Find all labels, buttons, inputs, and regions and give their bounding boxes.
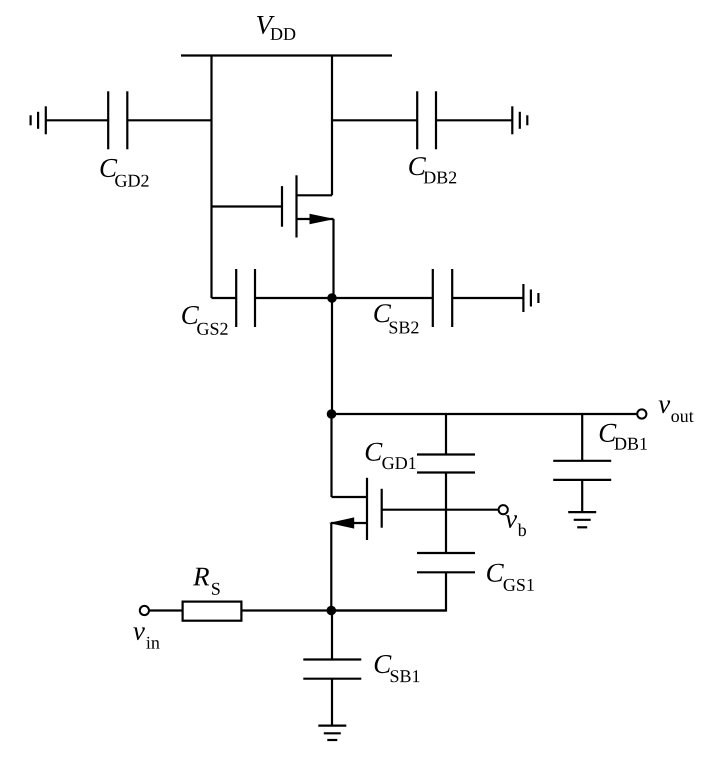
wire right vertical from VDD rail down to M2 drain [331,56,333,196]
wire RS to node C [241,609,331,611]
wire CGD2 to left vertical [127,119,211,121]
wire CSB1 down to ground [331,679,333,726]
label VDD [257,16,295,40]
label vin [133,627,159,648]
capacitor CDB2 [417,91,436,149]
wire node C down to CSB1 [331,611,333,660]
wire CGS2 to node A to CSB2 [255,297,433,299]
wire ground to CGD2 [46,119,108,121]
label CSB1 [375,655,420,682]
label CGD2 [101,159,149,187]
wire M1 source vertical down to node C [330,523,332,611]
wire vin to RS [150,609,183,611]
wire left vertical from VDD rail down to CGS2 row [210,56,212,299]
capacitor CDB1 [553,461,611,480]
label CGS2 [182,306,227,335]
ground right of CDB2 [512,106,527,134]
capacitor CGD2 [108,91,127,149]
capacitor CGD1 [417,455,475,473]
node A junction of M2 source, CGS2, CSB2 [327,293,337,303]
wire CDB1 down to ground [581,480,583,512]
wire output node to vout terminal [332,413,638,415]
capacitor CGS2 [236,269,255,327]
capacitor CSB2 [433,269,452,327]
ground bottom below CSB1 [318,726,346,740]
ground below CDB1 [568,512,596,527]
label vout [659,401,694,423]
wire M2 source vertical down to node A [332,219,334,298]
capacitor CSB1 [303,660,361,679]
transistor M2 [282,175,335,237]
label CSB2 [374,304,418,333]
wire output row down to CGD1 [445,414,447,455]
wire CDB2 to right ground [436,119,512,121]
wire node B down to M1 drain [330,414,332,497]
resistor RS [183,602,242,621]
power rail VDD [181,54,392,56]
terminal vout [637,409,646,418]
node C source node junction [327,606,337,616]
wire CGD1 down to CGS1 [445,473,447,554]
node B output node junction [327,409,337,419]
wire CGS1 down to source row corner [331,572,446,610]
wire output row down to CDB1 [581,414,583,461]
wire M2 gate lead from left vertical [212,205,283,207]
wire CSB2 to right ground [452,297,523,299]
ground right of CSB2 [523,284,538,312]
ground left of CGD2 [31,106,46,134]
label vb [506,515,527,536]
wire node C to CGS1 branch [331,609,446,611]
label CGS1 [487,564,534,591]
wire M1 gate lead to vb terminal [382,509,498,511]
transistor M1 [329,478,382,540]
capacitor CGS1 [417,553,475,572]
terminal vb [499,505,508,514]
label CDB1 [600,424,647,450]
terminal vin [140,606,149,615]
wire node A down to node B [331,298,333,414]
wire right vertical to CDB2 [332,119,417,121]
wire CGS2 row left segment [212,297,237,299]
label CDB2 [409,157,456,183]
label RS [193,568,220,595]
label CGD1 [366,443,416,470]
